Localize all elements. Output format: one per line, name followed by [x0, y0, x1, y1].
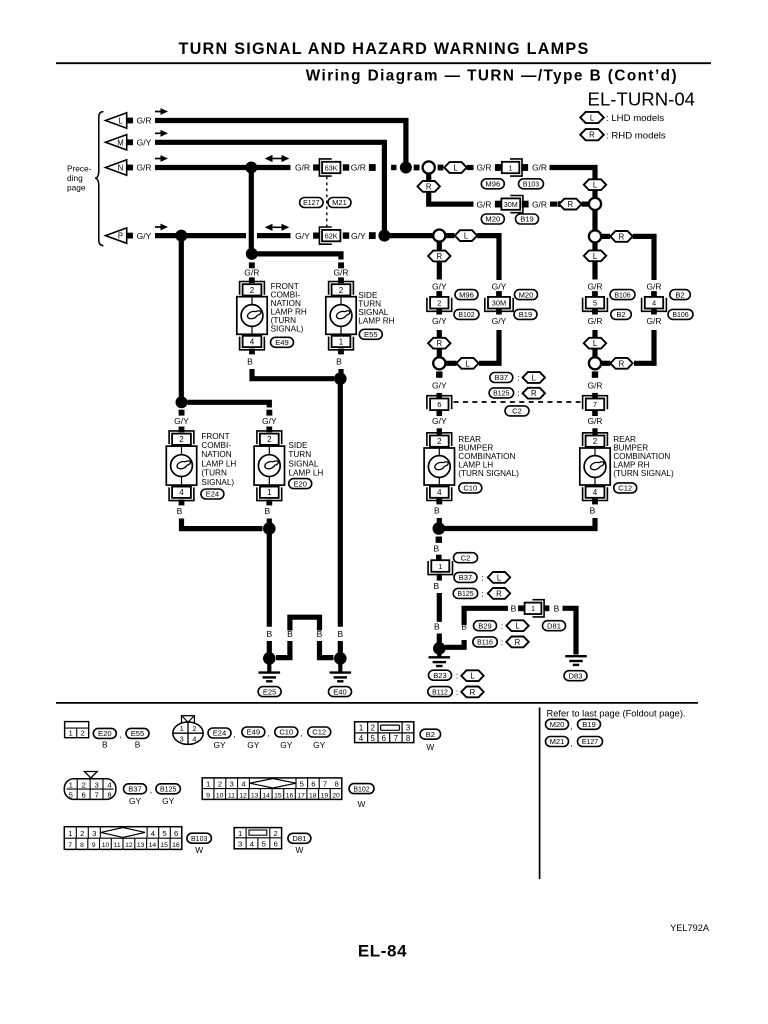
wire label B below front RH lamp: [247, 357, 253, 367]
svg-text:W: W: [195, 845, 203, 855]
wire LH lamps B down to ground net: [267, 535, 272, 627]
svg-text:C10: C10: [279, 728, 293, 737]
wire stub before hexagon R 30M row: [558, 201, 564, 207]
svg-text:8: 8: [406, 734, 410, 743]
svg-text:GY: GY: [129, 796, 142, 806]
svg-text:G/R: G/R: [136, 163, 151, 173]
svg-text:G/R: G/R: [587, 380, 602, 390]
svg-text:62K: 62K: [325, 231, 338, 240]
svg-text:P: P: [118, 232, 123, 241]
wire bridge top: [290, 617, 320, 630]
svg-text:B106: B106: [614, 292, 630, 299]
svg-text:1: 1: [68, 829, 72, 838]
wire side RH lamp B down: [338, 369, 343, 379]
svg-text:B37: B37: [459, 573, 473, 582]
wire label G/R side turn lamp RH: [333, 268, 348, 278]
hexagon R column A: [428, 251, 450, 262]
svg-text:B: B: [266, 629, 272, 639]
wire stub below box 6: [437, 410, 443, 416]
svg-text:W: W: [426, 742, 434, 752]
junction dot ground B23: [433, 642, 446, 655]
svg-text:2: 2: [593, 437, 598, 446]
wire label B before connector D81: [511, 604, 517, 614]
svg-text:8: 8: [334, 780, 338, 789]
wire stub into side RH lamp pin 2: [338, 277, 344, 283]
svg-text:G/R: G/R: [333, 268, 348, 278]
junction dot LH lamps: [176, 396, 188, 408]
wire hexagon R to column D drop: [633, 236, 654, 280]
svg-text:ding: ding: [67, 173, 83, 183]
label W under B102: [358, 799, 366, 809]
svg-text:E55: E55: [364, 330, 378, 339]
label W under B103: [195, 845, 203, 855]
svg-text:63K: 63K: [325, 163, 338, 172]
hexagon L row N: [444, 162, 466, 173]
svg-text:C10: C10: [463, 484, 477, 493]
svg-text:L: L: [453, 164, 458, 173]
wire label G/R (row L): [136, 116, 151, 126]
svg-text:30M: 30M: [492, 299, 506, 308]
svg-text:TURN: TURN: [288, 450, 311, 459]
wire stub before connector 63K: [313, 164, 319, 170]
wire label G/R below box 7: [587, 416, 602, 426]
svg-text:L: L: [532, 374, 537, 383]
svg-text:10: 10: [216, 792, 224, 799]
svg-text::: :: [456, 670, 458, 680]
connector ref M96 column: [455, 290, 478, 300]
svg-text:2: 2: [192, 724, 196, 733]
svg-text:G/Y: G/Y: [174, 416, 189, 426]
wire stub below rear RH lamp: [592, 499, 598, 505]
ref B2 pinout: [420, 729, 441, 739]
svg-text:B: B: [554, 604, 560, 614]
wire stub above G/Y front LH: [179, 410, 185, 416]
svg-text:1: 1: [509, 163, 513, 172]
svg-text:E49: E49: [275, 338, 289, 347]
wire label B below front LH lamp: [177, 506, 183, 516]
hexagon R right pair top: [610, 231, 632, 242]
svg-text:W: W: [295, 845, 303, 855]
wire label B below connector 1: [433, 581, 439, 591]
wire column A hexagon R to label: [437, 261, 442, 279]
wire label G/Y front combination lamp LH: [174, 416, 189, 426]
header subtitle Wiring Diagram: [306, 68, 678, 85]
ground symbol D83: [565, 656, 587, 665]
wire stub before connector 1: [495, 164, 502, 171]
wire circle P down to hexagon R column A: [437, 242, 442, 250]
svg-text:B: B: [247, 357, 253, 367]
svg-text:G/Y: G/Y: [137, 231, 152, 241]
wire row N segment 1: [155, 165, 291, 170]
svg-text:,: ,: [150, 786, 152, 795]
svg-text:14: 14: [149, 842, 157, 849]
svg-text:L: L: [590, 114, 595, 123]
wire label G/R after 63K: [351, 163, 366, 173]
svg-text:2: 2: [437, 437, 442, 446]
svg-text:M21: M21: [332, 198, 347, 207]
junction dot row N at drop to front lamps: [245, 162, 257, 174]
hexagon R 30M row: [559, 199, 581, 210]
svg-text:4: 4: [151, 829, 156, 838]
svg-text:2: 2: [179, 435, 184, 444]
input triangle N: [106, 160, 134, 175]
wire row M G/Y to drop: [155, 142, 384, 235]
connector ref B19 row: [516, 214, 539, 224]
preceding page brace: [95, 112, 104, 246]
svg-text:8: 8: [107, 791, 111, 800]
connector box 7 (C2): [583, 396, 608, 410]
connector ref C12: [614, 483, 637, 493]
svg-text:D81: D81: [292, 834, 306, 843]
wire stub circle to hexagon R right pair: [602, 234, 611, 239]
wire label B column E25: [266, 629, 272, 639]
connector box 5 column C (B106/B2): [583, 297, 608, 311]
wire stub hexagon L to circle column A: [446, 361, 457, 366]
connector 1 (D81): [525, 600, 545, 617]
front combination lamp LH (E24): [166, 431, 196, 501]
wire stub after connector 1: [521, 164, 528, 171]
joint circle row N: [423, 161, 435, 173]
svg-text:1: 1: [206, 780, 210, 789]
wire stub below rear LH lamp: [436, 499, 442, 505]
svg-text:B37: B37: [128, 785, 142, 794]
wire row N to right drop: [550, 168, 596, 180]
svg-text:L: L: [515, 622, 520, 631]
wire label G/Y column A top: [432, 281, 447, 291]
wire 30M row toward circle: [550, 202, 558, 207]
svg-text:E24: E24: [206, 490, 220, 499]
connector ref C2 main: [454, 553, 478, 563]
svg-text::: :: [501, 637, 503, 647]
connector ref M20 row: [481, 214, 504, 224]
svg-text:B: B: [336, 357, 342, 367]
svg-text:20: 20: [332, 792, 340, 799]
label front combination lamp RH: [271, 282, 307, 334]
svg-text:2: 2: [82, 781, 86, 790]
svg-text:11: 11: [114, 842, 121, 849]
svg-text:EL-TURN-04: EL-TURN-04: [588, 88, 695, 109]
wire label B bridge right: [317, 629, 323, 639]
svg-text:M20: M20: [550, 720, 565, 729]
svg-text:GY: GY: [247, 740, 260, 750]
connector ref E49: [271, 337, 294, 347]
svg-text:FRONT: FRONT: [201, 432, 229, 441]
wire label G/Y column B top: [492, 281, 507, 291]
svg-text:GY: GY: [313, 740, 326, 750]
svg-text:B19: B19: [520, 215, 534, 224]
svg-text:1: 1: [438, 562, 442, 571]
svg-text:7: 7: [323, 780, 327, 789]
hexagon L column C: [584, 250, 606, 261]
svg-text:7: 7: [68, 842, 72, 849]
wire B into ground dot: [437, 634, 442, 645]
svg-text:page: page: [67, 183, 86, 193]
svg-text:7: 7: [593, 400, 597, 409]
junction dot E40: [334, 652, 347, 665]
wire stub above box 6: [437, 393, 443, 399]
svg-text:N: N: [118, 164, 124, 173]
hexagon L into circle column A: [456, 358, 478, 369]
svg-text::: :: [481, 589, 483, 599]
joint circle column A: [433, 357, 445, 369]
svg-text:(TURN SIGNAL): (TURN SIGNAL): [613, 469, 674, 478]
svg-text:GY: GY: [213, 740, 226, 750]
wire stub below circle column A: [436, 371, 442, 377]
svg-text:B19: B19: [582, 720, 596, 729]
svg-text:1: 1: [359, 724, 363, 733]
wire label B bridge left: [287, 629, 293, 639]
wire from circle N down to hexagon R: [426, 174, 431, 181]
label GY under C12: [313, 740, 326, 750]
wire label G/Y (row P): [137, 231, 152, 241]
arrow row P: [155, 224, 168, 231]
wire stub row N after crossing: [391, 165, 396, 170]
connector ref B106 column C: [610, 290, 635, 300]
hexagon R below circle row N: [418, 181, 440, 192]
ref B19 foldout: [578, 719, 601, 729]
side turn signal lamp LH (E20): [254, 431, 284, 501]
svg-text:5: 5: [300, 780, 304, 789]
svg-text:2: 2: [80, 829, 84, 838]
connector ref E24: [201, 489, 224, 499]
svg-text:G/R: G/R: [351, 163, 366, 173]
ground symbol E25: [259, 664, 281, 682]
wire stub above G/Y side LH: [266, 410, 272, 416]
label GY under C10: [280, 740, 293, 750]
wire label B above connector C2: [433, 543, 439, 553]
joint circle column C lower: [589, 357, 601, 369]
connector ref E127: [300, 198, 324, 208]
wire label G/Y after 62K: [351, 231, 366, 241]
wire side LH lamp B down: [267, 519, 272, 529]
wire row P segment 1: [155, 233, 179, 238]
svg-text:2: 2: [267, 435, 272, 444]
joint circle row P: [433, 230, 445, 242]
ref B37 hexagon L main line: [454, 572, 510, 583]
connector ref C10: [459, 483, 482, 493]
connector ref E20: [289, 479, 312, 489]
svg-text:15: 15: [160, 842, 168, 849]
svg-text:5: 5: [69, 791, 73, 800]
hexagon R column A lower: [428, 338, 450, 349]
wire stub hexagon R to circle column C: [602, 361, 611, 366]
svg-text:14: 14: [262, 792, 270, 799]
svg-text:B: B: [511, 604, 517, 614]
connector 30M (M20/B19): [501, 196, 523, 213]
svg-text:Refer to last page (Foldout pa: Refer to last page (Foldout page).: [547, 708, 686, 718]
svg-text:C12: C12: [618, 484, 632, 493]
connector ref B2 column D: [670, 290, 691, 300]
svg-text::: :: [501, 621, 503, 631]
wire branch to D83 ground: [563, 608, 577, 654]
junction dot row P with row M: [378, 230, 390, 242]
svg-text:SIDE: SIDE: [288, 441, 308, 450]
junction dot row N with row L: [400, 162, 412, 174]
ref B125 hexagon R main line: [453, 588, 510, 599]
wire into rear bumper LH lamp: [437, 428, 442, 435]
ref M20 foldout: [546, 719, 573, 731]
arrow row N: [155, 155, 168, 162]
wire stub below junction dot: [436, 537, 442, 543]
wire stub above box 7: [592, 393, 598, 399]
wire stub before connector 62K: [313, 233, 319, 239]
pinout connector B102 20-pin: [202, 778, 342, 800]
wire stub into front LH lamp pin 2: [179, 427, 185, 433]
diagram code EL-TURN-04: [588, 88, 695, 109]
junction dot rear lamps B: [433, 522, 446, 535]
wire into rear bumper RH lamp: [592, 428, 597, 435]
header title TURN SIGNAL AND HAZARD WARNING LAMPS: [178, 40, 589, 58]
wire stub above G/R front RH: [249, 262, 255, 268]
svg-text:G/R: G/R: [532, 199, 547, 209]
svg-text:E127: E127: [303, 200, 319, 207]
separator line: [56, 702, 698, 704]
wire junction to side turn lamp RH: [258, 254, 342, 260]
svg-text:2: 2: [81, 729, 85, 738]
junction dot E25: [263, 652, 276, 665]
svg-text:LAMP RH: LAMP RH: [358, 317, 394, 326]
wire stub below box 7: [592, 410, 598, 416]
wire stub above connector 1 C2: [436, 555, 442, 561]
ref C12 pinout: [308, 727, 331, 737]
svg-text:L: L: [465, 359, 470, 368]
label W under D81: [295, 845, 303, 855]
svg-text::: :: [481, 573, 483, 583]
wire label B below rear RH lamp: [590, 506, 596, 516]
ref B37 with hexagon L (dashed): [490, 372, 545, 383]
svg-text:2: 2: [339, 286, 344, 295]
connector ref B2 column C: [611, 309, 632, 319]
right panel divider: [539, 708, 541, 880]
svg-text:4: 4: [179, 488, 184, 497]
ground symbol B23/B112: [429, 653, 451, 666]
input triangle M: [106, 135, 134, 150]
connector box 4 column D (B2/B106): [642, 297, 667, 311]
svg-text:B2: B2: [675, 290, 684, 299]
wire label G/R before connector 1: [476, 163, 491, 173]
svg-text:E55: E55: [131, 729, 145, 738]
svg-text:G/R: G/R: [587, 316, 602, 326]
wire stub below front LH lamp: [179, 500, 185, 506]
wire label B below side LH lamp: [264, 506, 270, 516]
svg-text:G/R: G/R: [476, 199, 491, 209]
wire label G/R column C mid: [587, 316, 602, 326]
svg-text:4: 4: [652, 299, 656, 308]
svg-text:8: 8: [80, 842, 84, 849]
wire stub circle to hexagon L row P: [446, 233, 455, 238]
svg-text:G/R: G/R: [295, 163, 310, 173]
svg-text:4: 4: [359, 734, 364, 743]
junction dot row P at drop to LH lamps: [175, 230, 187, 242]
svg-text:M21: M21: [550, 737, 565, 746]
joint circle right pair top: [589, 230, 601, 242]
wire label G/R before connector 30M: [476, 199, 491, 209]
wire stub column C above box 5: [592, 291, 598, 297]
svg-text:B37: B37: [495, 373, 509, 382]
svg-text:1: 1: [69, 781, 73, 790]
wire stub column B above box 30M: [496, 291, 502, 297]
svg-text:1: 1: [339, 337, 344, 346]
svg-text:G/R: G/R: [646, 316, 661, 326]
input triangle L: [106, 113, 134, 128]
svg-text:(TURN SIGNAL): (TURN SIGNAL): [458, 469, 519, 478]
svg-text:2: 2: [274, 829, 278, 838]
double arrow row N: [265, 155, 290, 162]
svg-text:10: 10: [102, 842, 110, 849]
wire stub column A above box 2: [436, 291, 442, 297]
svg-text:G/Y: G/Y: [432, 281, 447, 291]
wire row L G/R to drop: [155, 121, 406, 164]
wire label G/Y above box 6: [432, 380, 447, 390]
svg-text:12: 12: [239, 792, 247, 799]
ref B37 pinout: [124, 784, 153, 795]
svg-text:3: 3: [180, 735, 184, 744]
svg-text:Prece-: Prece-: [67, 163, 92, 173]
svg-text:B: B: [102, 740, 108, 750]
svg-text:,: ,: [570, 739, 572, 748]
svg-text:1: 1: [180, 724, 184, 733]
pinout connector B103 16-pin: [64, 827, 182, 850]
svg-text:B19: B19: [519, 310, 533, 319]
wire into E25 ground dot: [267, 641, 272, 654]
wire label G/R column D mid: [646, 316, 661, 326]
wire column D down to hexagon R row: [634, 330, 654, 363]
svg-text:: LHD models: : LHD models: [606, 113, 664, 124]
label side turn signal lamp LH: [288, 441, 323, 478]
wire label G/Y below box 6: [432, 416, 447, 426]
svg-text:TURN SIGNAL AND HAZARD WARNING: TURN SIGNAL AND HAZARD WARNING LAMPS: [178, 40, 589, 58]
svg-text:M20: M20: [519, 290, 534, 299]
svg-text:3: 3: [94, 781, 98, 790]
junction dot front RH lamps: [246, 248, 258, 260]
svg-text:18: 18: [309, 792, 317, 799]
wire P drop to LH lamps junction: [179, 241, 184, 398]
legend hexagon R = RHD models: [580, 129, 666, 141]
pinout connector E20/E55: [65, 722, 89, 738]
svg-text:D81: D81: [547, 621, 561, 630]
wire stub row P before junction: [369, 232, 376, 239]
wire column C to hexagon L lower: [592, 330, 597, 338]
wire column C hexagon L to label: [592, 261, 597, 279]
svg-text:4: 4: [593, 488, 598, 497]
svg-text:2: 2: [437, 299, 441, 308]
svg-text:B: B: [317, 629, 323, 639]
svg-text:5: 5: [262, 840, 266, 849]
svg-text:G/Y: G/Y: [295, 231, 310, 241]
wire stub below connector 1 C2: [437, 574, 442, 581]
wire stub row N before circle: [414, 165, 420, 171]
wire column C hexagon to circle: [592, 349, 597, 357]
svg-text:Wiring Diagram — TURN —/Type B: Wiring Diagram — TURN —/Type B (Cont’d): [306, 68, 678, 85]
connector ref M20 column: [515, 290, 538, 300]
wire bridge right leg to E40 dot: [320, 641, 334, 658]
label front combination lamp LH: [201, 432, 236, 487]
svg-text:E40: E40: [333, 687, 347, 696]
svg-text:B2: B2: [426, 730, 435, 739]
svg-text:C12: C12: [312, 728, 326, 737]
wire label G/Y before connector 62K: [295, 231, 310, 241]
connector box 2 column A (M96/B102): [427, 297, 452, 311]
wire label B above ground junction: [434, 621, 440, 631]
svg-text:B106: B106: [672, 312, 688, 319]
connector ref D81: [543, 621, 566, 631]
svg-text:R: R: [589, 131, 595, 140]
svg-text:1: 1: [238, 829, 242, 838]
svg-text:2: 2: [371, 724, 375, 733]
wire label B after connector D81: [554, 604, 560, 614]
svg-text:B29: B29: [478, 621, 492, 630]
svg-text:7: 7: [394, 734, 398, 743]
